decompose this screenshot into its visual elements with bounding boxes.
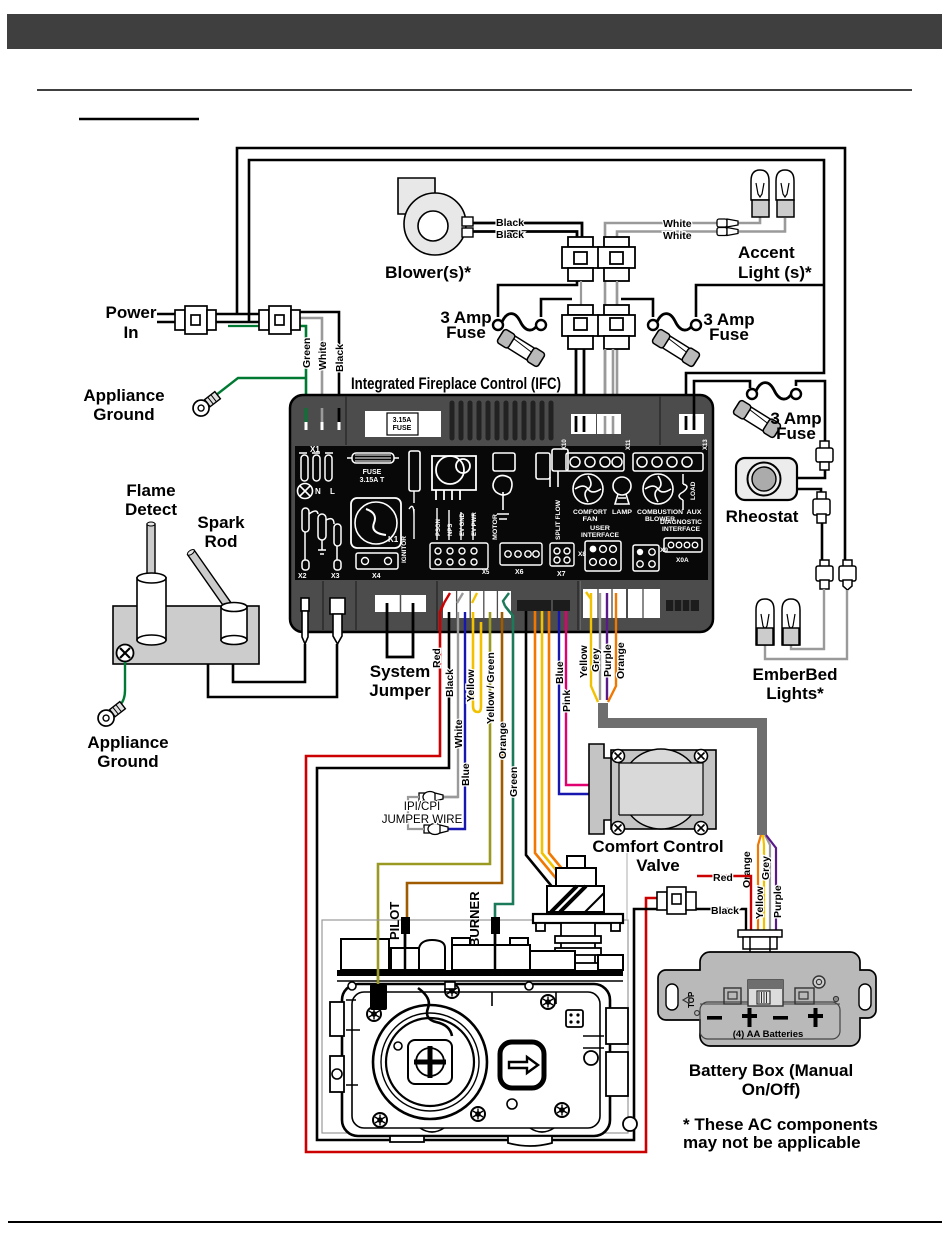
- footer rule: [8, 1221, 942, 1223]
- svg-text:X7: X7: [557, 571, 566, 578]
- svg-text:Yellow: Yellow: [578, 644, 590, 678]
- flame detect electrode FD: [137, 522, 166, 645]
- valve torx screw 5: [373, 1113, 387, 1127]
- svg-text:Battery Box (Manual: Battery Box (Manual: [689, 1061, 853, 1080]
- svg-text:PSON: PSON: [436, 519, 442, 536]
- svg-text:Comfort Control: Comfort Control: [592, 837, 723, 856]
- label Power In: [105, 303, 156, 342]
- svg-text:N: N: [315, 487, 321, 496]
- svg-text:DIAGNOSTIC: DIAGNOSTIC: [660, 519, 702, 526]
- wire: grey battery lead: [599, 593, 601, 700]
- svg-text:EV GND: EV GND: [460, 512, 466, 536]
- wire: IPI jumper bracket: [408, 797, 424, 829]
- svg-text:White: White: [663, 218, 692, 230]
- wire: sensor plate lead B to spade X3: [208, 644, 337, 697]
- label TOP: [683, 991, 699, 1015]
- svg-text:X6: X6: [515, 569, 524, 576]
- label Yellow / Green (vertical): [485, 652, 497, 724]
- wire: mating gap blower column: [580, 281, 582, 305]
- IFC dark mini strip: [666, 600, 699, 611]
- PCB silkscreen: X5 header block: [430, 508, 488, 569]
- wire: teal pigtail in cell 5: [503, 593, 509, 606]
- header rule: [37, 89, 912, 91]
- label White (accent wire 2): [663, 230, 692, 242]
- label Black (vertical): [334, 344, 346, 372]
- svg-text:Black: Black: [496, 229, 524, 241]
- fuse holder F2 (3 Amp): [648, 314, 701, 330]
- valve diaphragm circle: [373, 1005, 487, 1119]
- system jumper connector cells: [375, 595, 426, 612]
- label Grey (battery): [590, 648, 602, 672]
- wire: sensor plate lead A to spade X2: [233, 644, 305, 682]
- comfort valve screw BL: [612, 822, 625, 835]
- PCB silkscreen: comfort fan icon: [573, 474, 603, 504]
- fuse holder F3 (3 Amp): [747, 383, 801, 399]
- svg-text:Purple: Purple: [772, 885, 784, 918]
- battery box switch group: [724, 976, 839, 1006]
- svg-text:Appliance: Appliance: [87, 733, 168, 752]
- ground screw on plate: [117, 645, 134, 662]
- valve torx screw 1: [445, 984, 459, 998]
- svg-text:Appliance: Appliance: [83, 386, 164, 405]
- svg-text:X13: X13: [703, 439, 709, 450]
- svg-text:IPI/CPI: IPI/CPI: [404, 801, 440, 813]
- valve aux square: [566, 1010, 583, 1027]
- svg-text:Blower(s)*: Blower(s)*: [385, 263, 471, 282]
- wire: thin purple battery lead: [766, 835, 776, 930]
- PCB silkscreen: motor driver: [493, 453, 515, 519]
- battery 4-pin connector: [738, 930, 782, 957]
- svg-text:Red: Red: [713, 872, 733, 884]
- svg-text:Black: Black: [711, 905, 739, 917]
- label Green (vertical): [508, 767, 520, 797]
- IPI/CPI spade pair bottom: [424, 824, 448, 835]
- svg-text:X4: X4: [372, 573, 381, 580]
- label Comfort Control Valve: [592, 837, 723, 875]
- svg-text:X1: X1: [310, 445, 320, 454]
- valve torx screw 3: [541, 995, 555, 1009]
- IFC middle dark connector B: [553, 600, 570, 611]
- wire: accent leads from bullets to bulbs: [742, 215, 785, 232]
- wire: connector C1 to rheostat: [797, 470, 825, 478]
- svg-text:SPLIT FLOW: SPLIT FLOW: [555, 499, 562, 540]
- label Black (battery): [711, 905, 739, 917]
- PCB silkscreen: X2 X3 labels: [298, 573, 340, 580]
- svg-text:Ground: Ground: [93, 405, 154, 424]
- wire: ember grey leads: [765, 589, 847, 659]
- IFC top connector X-aux right: [679, 414, 704, 434]
- red/black inline connector: [657, 887, 696, 914]
- svg-text:MOTOR: MOTOR: [492, 514, 499, 540]
- wire: accent light white lead 2: [617, 232, 742, 435]
- PCB silkscreen: ignitor bar: [401, 451, 420, 563]
- label Orange (battery): [615, 642, 627, 679]
- svg-text:Fuse: Fuse: [709, 325, 749, 344]
- fuse cartridge F3: [732, 399, 781, 438]
- wire: green out of power connector: [297, 326, 306, 430]
- label (4) AA Batteries: [733, 1029, 804, 1040]
- label Green (vertical): [301, 338, 313, 368]
- svg-text:LOAD: LOAD: [690, 481, 697, 500]
- svg-text:On/Off): On/Off): [742, 1080, 801, 1099]
- pilot rod overlay: [401, 917, 410, 970]
- IFC PCB black area: [295, 446, 708, 580]
- solenoid flange plate: [533, 914, 623, 931]
- svg-text:White: White: [317, 341, 329, 370]
- inline connector C2: [813, 492, 830, 523]
- svg-text:EV PWR: EV PWR: [472, 512, 478, 536]
- svg-text:JUMPER WIRE: JUMPER WIRE: [382, 814, 463, 826]
- PCB silkscreen: X5 pin labels: [436, 512, 490, 576]
- wire: fuse F1 return to lower connector: [541, 299, 572, 317]
- ember bulb 1: [756, 599, 774, 645]
- label These AC components note: [683, 1115, 878, 1152]
- ring terminal (appliance ground 1): [190, 389, 223, 419]
- PCB silkscreen: section labels: [573, 509, 702, 523]
- PCB silkscreen: X1 labels: [310, 445, 335, 496]
- bullet connector pair on accent lead 1: [717, 219, 738, 227]
- comfort control valve body: [589, 744, 716, 834]
- PCB silkscreen: combustion blower icon: [643, 474, 673, 504]
- svg-text:Orange: Orange: [615, 642, 627, 679]
- svg-text:Integrated Fireplace Control (: Integrated Fireplace Control (IFC): [351, 374, 561, 393]
- label Purple (battery): [602, 644, 614, 677]
- svg-text:INTERFACE: INTERFACE: [581, 532, 619, 539]
- wire: yellow battery lead: [591, 593, 598, 702]
- PCB silkscreen: fuse F 3.15A: [347, 453, 399, 484]
- PCB silkscreen: split flow: [550, 499, 574, 578]
- battery polarity symbols: [707, 1008, 823, 1027]
- wire: thin yellow battery lead: [763, 835, 764, 930]
- olive terminal blob: [370, 984, 387, 1010]
- label Yellow (battery cable): [754, 885, 766, 919]
- label Accent Light (s)*: [738, 243, 812, 282]
- label Purple (battery cable): [772, 885, 784, 918]
- rheostat R1: [736, 458, 797, 500]
- wire: white pair into IFC: [605, 349, 613, 432]
- IFC middle dark connector A: [517, 600, 551, 611]
- gas valve frame box: [322, 853, 628, 1133]
- label Battery Box (Manual On/Off): [689, 1061, 853, 1099]
- svg-text:Yellow: Yellow: [465, 668, 477, 702]
- valve bottom feet: [390, 1117, 637, 1146]
- PCB silkscreen: X1 connector: [299, 453, 333, 481]
- wire: orange 3 to solenoid: [549, 611, 583, 894]
- wire: thin orange battery lead: [758, 835, 761, 930]
- solenoid stem column: [549, 923, 607, 972]
- label Yellow (battery): [578, 644, 590, 678]
- IFC white cell pair (battery conn): [583, 589, 660, 618]
- svg-text:X2: X2: [298, 573, 307, 580]
- battery box BB1: [658, 952, 876, 1046]
- svg-text:COMFORT: COMFORT: [573, 509, 608, 516]
- svg-text:PILOT: PILOT: [387, 902, 402, 940]
- PCB silkscreen: X9 connector: [633, 545, 668, 571]
- svg-text:may not be applicable: may not be applicable: [683, 1133, 861, 1152]
- svg-text:Pink: Pink: [561, 690, 573, 712]
- wire: outer AC loop top: [237, 148, 845, 560]
- wire: blue to comfort valve: [559, 611, 590, 794]
- svg-text:Grey: Grey: [590, 648, 602, 672]
- wire: pink to comfort valve: [566, 611, 590, 785]
- wire: orange (brown) to pilot terminal: [407, 612, 502, 918]
- svg-text:Detect: Detect: [125, 500, 177, 519]
- svg-text:FAN: FAN: [583, 516, 598, 523]
- svg-text:Jumper: Jumper: [369, 681, 431, 700]
- PCB silkscreen: lamp icon: [613, 477, 631, 504]
- PCB silkscreen: diagnostic interface X0A: [660, 519, 702, 564]
- label BURNER (vertical): [467, 891, 482, 947]
- svg-text:Grey: Grey: [760, 856, 772, 880]
- svg-text:LAMP: LAMP: [612, 509, 632, 516]
- svg-text:* These AC components: * These AC components: [683, 1115, 878, 1134]
- label Appliance Ground (upper): [83, 386, 164, 424]
- accent light bulb 1: [751, 170, 769, 217]
- valve arrow button: [500, 1042, 544, 1088]
- label Blue (vertical 2): [554, 661, 566, 684]
- label Black (blower wire 2): [496, 229, 524, 241]
- label Pink (vertical): [561, 690, 573, 712]
- svg-text:Black: Black: [444, 669, 456, 697]
- svg-text:Fuse: Fuse: [776, 424, 816, 443]
- wire: red pigtail in cell 1: [444, 593, 450, 603]
- svg-text:(4) AA Batteries: (4) AA Batteries: [733, 1029, 804, 1040]
- label White (accent wire 1): [663, 218, 692, 230]
- label Blower(s)*: [385, 263, 471, 282]
- wire: grey pigtail in cell 2: [457, 593, 463, 603]
- label White (vertical): [317, 341, 329, 370]
- svg-text:Power: Power: [105, 303, 156, 322]
- label Black (blower wire 1): [496, 217, 524, 229]
- wire: inner loop right drop to IFC pin1: [686, 285, 824, 416]
- PCB silkscreen: X2 X3 spark/flame pins: [302, 508, 341, 570]
- wire: appliance ground 1 green branch: [211, 378, 306, 399]
- connector pair lower (blower circuit): [562, 305, 599, 349]
- label Integrated Fireplace Control (IFC): [351, 374, 561, 393]
- IFC top connector X-black/white: [571, 414, 621, 434]
- svg-text:Yellow: Yellow: [754, 885, 766, 919]
- connector pair upper (blower circuit): [562, 237, 599, 281]
- svg-text:Fuse: Fuse: [446, 323, 486, 342]
- svg-text:Black: Black: [334, 344, 346, 372]
- fuse cartridge F1: [496, 328, 545, 367]
- svg-text:System: System: [370, 662, 430, 681]
- label IPI/CPI JUMPER WIRE: [382, 801, 463, 826]
- valve top rail: [337, 970, 623, 981]
- label Red (battery): [713, 872, 733, 884]
- svg-text:USER: USER: [590, 525, 610, 532]
- ember bulb 2: [782, 599, 800, 645]
- label Blue (vertical): [460, 763, 472, 786]
- IPI/CPI spade pair top: [419, 792, 458, 803]
- label System Jumper: [369, 662, 431, 700]
- wire: green to burner terminal: [495, 606, 513, 918]
- pilot terminal rod: [401, 917, 410, 971]
- valve torx screw 2: [367, 1007, 381, 1021]
- svg-text:TOP: TOP: [687, 991, 696, 1008]
- svg-text:X0A: X0A: [676, 557, 689, 564]
- label Grey (battery cable): [760, 856, 772, 880]
- svg-text:K1: K1: [388, 535, 399, 544]
- title underline: [79, 118, 199, 121]
- svg-text:X3: X3: [331, 573, 340, 580]
- svg-text:L: L: [330, 487, 335, 496]
- wire: appliance ground 2 green lead: [116, 662, 125, 709]
- svg-text:EmberBed: EmberBed: [752, 665, 837, 684]
- svg-text:White: White: [453, 719, 465, 748]
- PCB silkscreen: X4 connector: [356, 553, 398, 580]
- burner terminal rod: [491, 917, 500, 971]
- svg-text:FUSE: FUSE: [363, 469, 382, 476]
- fuse cartridge F2: [651, 328, 700, 367]
- svg-text:Red: Red: [431, 648, 443, 668]
- power connector P1: [175, 306, 216, 334]
- ring terminal (appliance ground 2): [95, 699, 128, 729]
- svg-text:Flame: Flame: [126, 481, 175, 500]
- IFC board U1 body: [290, 395, 713, 632]
- spade terminal X2 (flame): [301, 598, 309, 644]
- svg-text:NPS: NPS: [448, 524, 454, 536]
- valve top extra bolts: [348, 982, 533, 990]
- connector pair upper (accent circuit): [598, 237, 635, 281]
- wire: IFC pin2 to fuse F3: [694, 381, 750, 416]
- IFC low-voltage connector strip: [443, 591, 511, 618]
- header bar: [7, 14, 942, 49]
- wire: connector C2 down to ember connector: [821, 523, 824, 560]
- svg-text:AUX: AUX: [687, 509, 702, 516]
- label Orange (battery cable): [741, 851, 753, 888]
- svg-text:Green: Green: [301, 338, 313, 368]
- PCB silkscreen: aux load: [679, 474, 697, 510]
- svg-text:Valve: Valve: [636, 856, 680, 875]
- burner rod overlay: [491, 917, 500, 970]
- label Spark Rod: [197, 513, 245, 551]
- wire: blue to IPI jumper: [447, 612, 465, 829]
- PCB silkscreen: ground screw: [298, 484, 313, 499]
- wire: white out of power connector: [297, 318, 322, 430]
- wire: yellow pigtail in cell 3: [472, 593, 477, 603]
- spade terminal X3 (spark): [330, 598, 345, 644]
- wire: power entry tips inside IFC: [306, 408, 339, 430]
- connector pair lower (accent circuit): [598, 305, 635, 349]
- accent light bulb 2: [776, 170, 794, 217]
- valve top blocks: [341, 938, 623, 970]
- flame detect / spark rod mounting plate: [113, 606, 259, 664]
- svg-text:X10: X10: [562, 439, 568, 450]
- wire: thin grey battery lead: [765, 835, 770, 930]
- valve interior details: [346, 992, 604, 1132]
- valve main body: [330, 984, 628, 1136]
- wire: orange 1 to solenoid: [535, 611, 569, 894]
- wire: black control: [317, 612, 658, 1140]
- valve center hub screw: [408, 1040, 452, 1084]
- wire: yellow 2 to solenoid: [542, 611, 576, 894]
- comfort valve screw BR: [695, 822, 708, 835]
- label 3 Amp Fuse (right of accent): [703, 310, 754, 344]
- wire: mating gap accent column: [616, 281, 618, 305]
- wire: yellow stub loop: [473, 612, 481, 712]
- svg-text:White: White: [663, 230, 692, 242]
- bullet connector pair on accent lead 2: [717, 228, 738, 236]
- label Appliance Ground (lower): [87, 733, 168, 771]
- wire: red jumper to battery connector: [697, 876, 751, 930]
- label 3 Amp Fuse (rheostat): [770, 409, 821, 443]
- svg-text:In: In: [123, 323, 138, 342]
- svg-text:X5: X5: [482, 570, 490, 576]
- label EmberBed Lights*: [752, 665, 837, 703]
- wire: rheostat to connector C2: [797, 489, 821, 492]
- svg-text:Accent: Accent: [738, 243, 795, 262]
- comfort valve screw TR: [695, 750, 708, 763]
- inline connector C3 (ember left): [816, 560, 833, 589]
- svg-text:Spark: Spark: [197, 513, 245, 532]
- label Black (vertical): [444, 669, 456, 697]
- wire: grey jacket cable to battery box: [603, 703, 762, 835]
- svg-text:Rheostat: Rheostat: [726, 507, 799, 526]
- label Red (vertical): [431, 648, 443, 668]
- olive wire overlay to terminal blob: [377, 930, 380, 988]
- svg-text:Blue: Blue: [554, 661, 566, 684]
- svg-text:COMBUSTION: COMBUSTION: [637, 509, 683, 516]
- label Yellow (vertical): [465, 668, 477, 702]
- svg-text:Yellow / Green: Yellow / Green: [485, 652, 497, 724]
- svg-text:Rod: Rod: [204, 532, 237, 551]
- svg-text:IGNITOR: IGNITOR: [401, 536, 408, 563]
- wire: fuse F2 return to inner loop: [696, 285, 824, 317]
- svg-text:3.15A T: 3.15A T: [360, 477, 385, 484]
- blower B1: [398, 178, 473, 255]
- wire: black pair into IFC: [576, 349, 584, 432]
- valve cam lever curve: [418, 988, 452, 1036]
- wire: fuse F3 to inline connector: [796, 381, 825, 441]
- inline connector C1: [816, 441, 833, 470]
- label Rheostat: [726, 507, 799, 526]
- IFC 3.15A fuse holder box: [365, 411, 441, 437]
- wire: black to solenoid: [526, 611, 563, 900]
- label 3 Amp Fuse (left): [440, 308, 491, 342]
- label PILOT (vertical): [387, 902, 402, 940]
- svg-text:Ground: Ground: [97, 752, 158, 771]
- solenoid coil on valve: [547, 856, 604, 912]
- svg-text:Black: Black: [496, 217, 524, 229]
- wire: red control: [306, 603, 658, 1152]
- wire: black out of power connector: [297, 312, 339, 430]
- svg-text:Orange: Orange: [497, 722, 509, 759]
- label Orange (vertical): [497, 722, 509, 759]
- svg-text:Lights*: Lights*: [766, 684, 824, 703]
- comfort valve screw TL: [612, 750, 625, 763]
- svg-text:Purple: Purple: [602, 644, 614, 677]
- wire: black jumper to battery connector: [696, 909, 746, 930]
- inline connector C4 (ember right): [839, 560, 856, 590]
- wire: fuse F1 feed from blower connector: [498, 281, 577, 317]
- wire: system jumper U loop: [387, 603, 413, 657]
- label White (vertical): [453, 719, 465, 748]
- wire: blower black lead 1: [473, 223, 582, 238]
- olive wire terminal blob: [371, 984, 388, 1009]
- wire: accent light white lead 1: [605, 223, 742, 434]
- wire: yellow/green to pilot area: [378, 612, 490, 984]
- wire: fuse F2 feed from accent connector: [621, 299, 653, 317]
- PCB silkscreen: relay K2 small: [536, 449, 568, 487]
- wire: purple battery lead: [606, 593, 608, 700]
- spark rod electrode SR: [186, 548, 247, 644]
- svg-text:3.15A: 3.15A: [393, 417, 412, 424]
- label Flame Detect: [125, 481, 177, 519]
- PCB silkscreen: X10 X11 labels: [562, 439, 709, 450]
- wire: orange battery lead: [608, 593, 616, 702]
- PCB silkscreen: relay K1: [351, 498, 401, 548]
